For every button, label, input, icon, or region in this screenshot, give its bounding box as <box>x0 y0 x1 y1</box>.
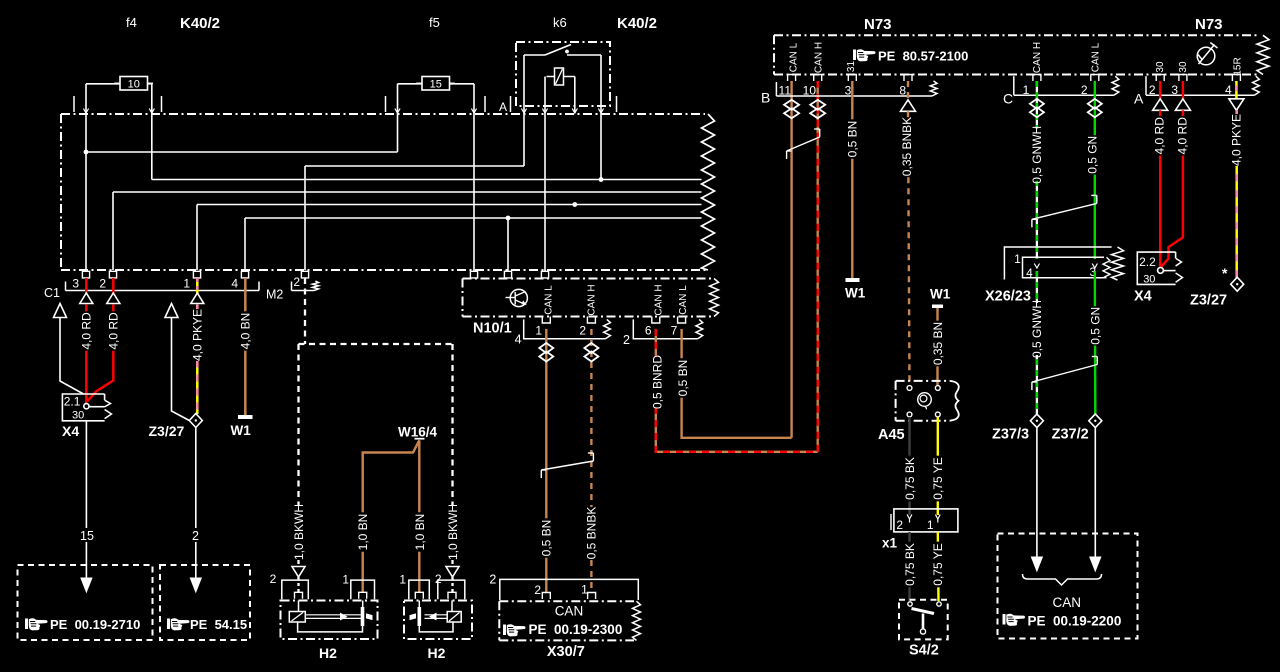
svg-text:S4/2: S4/2 <box>909 643 939 659</box>
svg-text:2: 2 <box>623 333 630 347</box>
svg-text:4,0 PKYE: 4,0 PKYE <box>191 309 205 361</box>
module K40/2 boundary box <box>60 114 62 270</box>
fuse f4 10A <box>120 77 148 91</box>
svg-text:X4: X4 <box>1134 289 1152 305</box>
svg-text:A45: A45 <box>878 427 905 443</box>
svg-text:3: 3 <box>845 84 852 98</box>
horn H2 (left) connector brackets <box>282 580 309 599</box>
svg-text:2: 2 <box>896 518 903 532</box>
svg-text:0,5 GNWH: 0,5 GNWH <box>1030 126 1044 184</box>
wire Z37/2 to CAN reference <box>1094 428 1096 558</box>
svg-text:4: 4 <box>1026 266 1033 280</box>
svg-text:1: 1 <box>399 573 406 587</box>
wire 0,5 GNWH X26/23 to Z37/3 <box>1036 271 1038 414</box>
wire 0,75 YE x1 to S4/2 <box>937 532 940 601</box>
pin C1-3 terminal <box>82 271 89 278</box>
svg-text:2: 2 <box>270 572 277 586</box>
junction at (574.8,204.5) <box>572 202 577 207</box>
svg-text:4,0 RD: 4,0 RD <box>1153 117 1167 155</box>
inline connector (double diamond) N10/1 pin1 <box>539 343 553 353</box>
twisted pair symbol (green pair upper) <box>1032 203 1097 219</box>
svg-text:X30/7: X30/7 <box>547 644 585 660</box>
svg-text:K40/2: K40/2 <box>617 15 657 32</box>
reference box PE 54.15 <box>160 565 250 640</box>
inline connector N73 pin 11 <box>784 100 799 110</box>
wire 0,5 BNRD from N10/1 pin 6 to N73 pin 10 (CAN H) <box>656 329 818 452</box>
svg-text:1,0 BN: 1,0 BN <box>413 514 427 551</box>
svg-text:PE 54.15: PE 54.15 <box>190 617 247 632</box>
horn H2 (right) symbol <box>451 601 453 612</box>
reference box PE 00.19-2200 <box>998 534 1138 639</box>
svg-text:0,5 GNWH: 0,5 GNWH <box>1030 300 1044 358</box>
svg-text:Z3/27: Z3/27 <box>1190 293 1227 309</box>
svg-text:0,5 GN: 0,5 GN <box>1089 307 1103 345</box>
svg-text:N10/1: N10/1 <box>473 321 512 337</box>
svg-text:2: 2 <box>489 573 496 587</box>
svg-text:30: 30 <box>1143 274 1155 286</box>
connector bracket M2 <box>292 290 315 292</box>
svg-text:M2: M2 <box>266 288 283 302</box>
svg-text:X4: X4 <box>62 423 79 439</box>
connector arrow A2 <box>1153 99 1168 111</box>
wire: pin M2-4 to right edge bus <box>244 218 246 270</box>
horn H2 (right) box <box>404 601 472 640</box>
wire f4 right lead <box>148 83 152 85</box>
terminal Z37/2 <box>1089 414 1102 428</box>
svg-text:1,0 BKWH: 1,0 BKWH <box>446 504 460 560</box>
X4 right chevrons <box>1176 258 1182 266</box>
wire 0,5 GN X26/23 to Z37/2 <box>1094 271 1097 414</box>
svg-text:0,75 YE: 0,75 YE <box>931 457 945 499</box>
X4 terminal ring <box>84 404 89 409</box>
svg-text:15R: 15R <box>1233 57 1244 75</box>
svg-text:3: 3 <box>72 277 79 291</box>
arrow into PE 00.19-2200 (left) <box>1031 557 1042 571</box>
horn switch S4/2 box <box>899 600 948 640</box>
wire 4,0 RD from pin C1-3 <box>85 278 88 294</box>
K40/2 torn right edge <box>702 114 715 270</box>
twisted pair symbol (CAN at N73 B) <box>787 137 820 151</box>
svg-text:x1: x1 <box>882 536 898 551</box>
control unit N10/1 box <box>462 279 464 317</box>
label CAN H (N10/1 pin 2) <box>586 284 597 315</box>
wire: pin M2-1 to right edge bus <box>196 205 198 271</box>
svg-text:PE 00.19-2200: PE 00.19-2200 <box>1028 614 1122 629</box>
fuse f5 15A <box>422 77 450 91</box>
connector bracket C1 <box>66 290 260 292</box>
svg-text:1: 1 <box>535 324 542 338</box>
relay k6 contact <box>524 54 545 56</box>
connector bracket X30/7 <box>500 579 639 600</box>
wire 1,0 BN right horn pin 1 <box>418 440 420 592</box>
svg-text:30: 30 <box>72 410 84 422</box>
svg-text:0,5 BNRD: 0,5 BNRD <box>650 355 664 409</box>
connector x1 <box>894 509 958 532</box>
svg-text:30: 30 <box>1178 61 1189 73</box>
svg-text:2: 2 <box>1149 83 1156 97</box>
terminal block X4 (2.2 / 30) <box>1137 252 1175 284</box>
svg-text:2.2: 2.2 <box>1139 255 1156 269</box>
CAN brace <box>1023 574 1102 585</box>
svg-text:0,35 BN: 0,35 BN <box>931 322 945 365</box>
svg-text:N73: N73 <box>864 16 892 33</box>
svg-text:1: 1 <box>342 573 349 587</box>
connector bracket C (N73) <box>1014 94 1114 96</box>
wire 4,0 RD from N73 A2 <box>1159 81 1162 99</box>
svg-text:*: * <box>1222 265 1228 281</box>
svg-text:A: A <box>1134 91 1144 107</box>
svg-text:H2: H2 <box>428 645 446 661</box>
twisted pair symbol (CAN to X30/7) <box>541 461 593 470</box>
svg-text:2: 2 <box>534 583 541 597</box>
connector arrow at left horn pin 2 <box>292 567 305 578</box>
N10/1 top terminals <box>470 271 477 278</box>
svg-text:4: 4 <box>1225 83 1232 97</box>
connector bracket 4 (N10/1) <box>524 319 606 338</box>
svg-text:31: 31 <box>846 61 857 73</box>
terminal block X4 (2.1 / 30) <box>62 394 104 421</box>
svg-text:7: 7 <box>671 324 678 338</box>
inline connector C1 <box>1030 99 1044 109</box>
wire f5 right lead <box>450 83 475 85</box>
svg-text:W1: W1 <box>231 423 252 438</box>
module A45 box <box>895 381 897 421</box>
inline connector C2 <box>1088 99 1102 109</box>
svg-text:PE 80.57-2100: PE 80.57-2100 <box>878 49 968 64</box>
svg-text:4: 4 <box>515 333 522 347</box>
svg-text:CAN H: CAN H <box>814 42 825 73</box>
svg-text:CAN H: CAN H <box>1032 42 1043 73</box>
svg-text:1,0 BKWH: 1,0 BKWH <box>292 504 306 560</box>
wire Z37/3 to CAN reference <box>1036 428 1038 558</box>
connector bracket A (N73) <box>1146 94 1254 96</box>
horn H2 (left) box <box>281 601 378 640</box>
svg-text:10: 10 <box>803 84 817 98</box>
svg-text:CAN L: CAN L <box>543 285 554 315</box>
N73 torn right edge <box>1257 35 1269 74</box>
A45 terminals <box>907 386 912 391</box>
N10/1 torn right edge <box>710 279 719 317</box>
connector arrow at right horn pin 2 <box>446 567 459 578</box>
relay k6 coil <box>555 68 564 85</box>
wire 0,5 BNBK from N10/1 pin 2 <box>590 329 592 592</box>
svg-text:CAN: CAN <box>555 604 584 619</box>
pin M2-1 terminal <box>193 271 200 278</box>
control unit N73 box <box>773 35 775 74</box>
reference PE 80.57-2100 (in N73) <box>853 49 876 61</box>
svg-text:0,5 BN: 0,5 BN <box>846 121 860 158</box>
distribution box X30/7 (CAN) <box>498 601 500 640</box>
connector X26/23 outer bracket <box>1004 247 1111 280</box>
reference box PE 00.19-2710 <box>18 565 153 640</box>
wire: pin C1-2 to right edge bus <box>112 192 114 270</box>
twisted pair symbol (green pair lower) <box>1032 365 1097 383</box>
label CAN L (N73 C pin 2) <box>1090 42 1101 72</box>
wire 1,0 BKWH to right horn <box>451 344 453 505</box>
connector arrow A4 (down) <box>1229 99 1244 111</box>
wire: bus f4 to f5 left lead <box>86 151 398 153</box>
S4/2 switch contacts <box>908 602 912 606</box>
connector arrow A3 <box>1175 99 1190 111</box>
svg-text:K40/2: K40/2 <box>180 15 220 32</box>
svg-text:1: 1 <box>927 518 934 532</box>
connector arrow pin C1-2 <box>107 293 120 304</box>
wire 4,0 BN from pin M2-4 <box>244 278 247 415</box>
wire 0,75 BK x1 to S4/2 <box>908 532 910 601</box>
svg-text:0,75 BK: 0,75 BK <box>903 543 917 586</box>
svg-text:CAN H: CAN H <box>653 284 664 315</box>
wire 1,0 BN left horn pin 1 <box>363 440 420 592</box>
svg-text:PE 00.19-2710: PE 00.19-2710 <box>50 617 140 632</box>
ignition/clamp symbol in N73 <box>1197 47 1215 65</box>
svg-text:B: B <box>761 90 770 106</box>
svg-text:0,5 BNBK: 0,5 BNBK <box>585 507 599 560</box>
label 15R (N73 A pin 4) <box>1233 57 1244 75</box>
wire circuit 15 from X4 to ground plate <box>85 421 87 579</box>
svg-text:CAN H: CAN H <box>586 284 597 315</box>
N10/1 bottom terminals <box>542 317 550 324</box>
wire f5 left lead <box>398 83 423 85</box>
N73 bottom terminals <box>788 75 796 82</box>
svg-text:2.1: 2.1 <box>64 395 81 409</box>
connector arrow N73 pin 8 <box>901 100 916 112</box>
label 31 (N73 pin 3) <box>846 61 857 73</box>
svg-text:4,0 RD: 4,0 RD <box>1176 117 1190 155</box>
wire k6 terminal 4 (contact out) <box>600 55 602 113</box>
wire 0,75 BK A45 to x1 <box>908 417 910 515</box>
wire 4,0 RD from pin C1-2 <box>112 278 115 294</box>
svg-text:3: 3 <box>1171 83 1178 97</box>
svg-text:f4: f4 <box>126 15 137 30</box>
svg-text:C1: C1 <box>44 286 60 300</box>
connector bracket B (N73) <box>776 95 932 97</box>
svg-text:CAN L: CAN L <box>789 42 800 72</box>
label CAN H (N10/1 pin 6) <box>653 284 664 315</box>
svg-text:0,75 BK: 0,75 BK <box>903 457 917 500</box>
relay k6 box <box>516 42 610 106</box>
svg-text:1: 1 <box>1014 252 1021 266</box>
label CAN H (N73 C pin 1) <box>1032 42 1043 73</box>
svg-text:CAN L: CAN L <box>678 285 689 315</box>
wire circuit 2 from Z3/27 to ground plate <box>195 428 197 579</box>
arrow into PE 00.19-2710 <box>81 578 92 592</box>
label 30 (N73 A pin 3) <box>1178 61 1189 73</box>
svg-text:0,35 BNBK: 0,35 BNBK <box>900 117 914 176</box>
svg-text:0,75 YE: 0,75 YE <box>931 543 945 585</box>
svg-text:C: C <box>1003 91 1013 107</box>
label CAN H (N73 pin 10) <box>814 42 825 73</box>
svg-text:0,5 BN: 0,5 BN <box>676 360 690 397</box>
horn H2 (right) connector brackets <box>409 580 430 599</box>
svg-text:11: 11 <box>779 84 792 98</box>
wire: f4 left lead to pin C1-3 vertical <box>85 113 87 270</box>
junction at (601,179.5) <box>599 177 604 182</box>
feed arrow to X4 (continues up) <box>54 304 67 318</box>
wire 0,5 BN from N73 pin 3 to ground W1 <box>851 81 853 278</box>
pin M2-2 terminal <box>301 271 308 278</box>
connector arrow pin M2-1 <box>191 293 204 304</box>
svg-text:CAN L: CAN L <box>1090 42 1101 72</box>
svg-text:CAN: CAN <box>1053 595 1082 610</box>
wire: f5 right lead down to N10/1 <box>473 113 475 271</box>
ground W1 (left) <box>238 415 253 419</box>
svg-text:30: 30 <box>1155 61 1166 73</box>
svg-text:2: 2 <box>579 324 586 338</box>
svg-text:1: 1 <box>1023 83 1030 97</box>
svg-text:0,5 BN: 0,5 BN <box>540 520 554 557</box>
wire 0,75 YE A45 to x1 <box>937 417 939 515</box>
svg-text:k6: k6 <box>553 15 567 30</box>
wire 0,5 GNWH from N73 C1 <box>1036 81 1038 259</box>
terminal Z3/27 (left) <box>189 414 202 428</box>
wire k6 terminal 2 (coil left) <box>544 77 546 114</box>
wire 4,0 PKYE from pin M2-1 <box>196 278 199 294</box>
terminal Z3/27 (right) <box>1231 277 1244 291</box>
wire: f4 right lead to bus <box>151 113 153 180</box>
S4/2 switch blade and plunger <box>912 609 935 614</box>
wire 0,35 BN from W1 to A45 <box>936 308 938 386</box>
svg-text:Z37/3: Z37/3 <box>992 427 1029 443</box>
junction at (86,152) <box>84 150 89 155</box>
arrow into PE 54.15 <box>190 578 201 592</box>
svg-text:W1: W1 <box>845 286 866 301</box>
wire k6 terminal 1 (contact in) <box>523 55 525 113</box>
svg-text:2: 2 <box>1081 83 1088 97</box>
svg-text:2: 2 <box>293 275 300 289</box>
svg-text:15: 15 <box>80 529 94 543</box>
svg-text:X26/23: X26/23 <box>985 289 1031 305</box>
svg-text:W16/4: W16/4 <box>398 425 438 440</box>
svg-text:4,0 BN: 4,0 BN <box>239 313 253 350</box>
wire: bus at y179 to k6 terminal4 and right edge <box>152 179 702 181</box>
feed arrow to Z3/27 (continues up) <box>165 304 178 318</box>
svg-text:W1: W1 <box>930 287 951 302</box>
N10/1 electronics symbol <box>510 289 527 306</box>
svg-text:1: 1 <box>183 277 190 291</box>
wire k6 terminal 3 (coil right) <box>574 77 576 114</box>
connector bracket 2 (N10/1) <box>633 319 697 338</box>
pin C1-2 terminal <box>109 271 116 278</box>
svg-text:10: 10 <box>128 78 140 90</box>
svg-text:15: 15 <box>430 78 442 90</box>
wire 0,5 GN from N73 C2 <box>1094 81 1096 259</box>
K40/2 edge ticks at f4 <box>73 96 75 112</box>
label CAN L (N10/1 pin 7) <box>678 285 689 315</box>
svg-text:PE 00.19-2300: PE 00.19-2300 <box>529 622 623 637</box>
ground W1 (center) <box>846 278 860 282</box>
wire 1,0 BKWH from pin M2-2 <box>304 278 306 344</box>
label CAN L (N73 pin 11) <box>789 42 800 72</box>
svg-text:2: 2 <box>99 277 106 291</box>
K40/2 edge ticks at k6, connector A label <box>510 96 512 112</box>
svg-text:f5: f5 <box>429 15 440 30</box>
wire 4,0 RD from N73 A3 <box>1182 81 1185 99</box>
A45 coil symbol <box>918 393 932 407</box>
pin M2-4 terminal <box>241 271 248 278</box>
wire f4 left lead <box>86 83 120 85</box>
arrow into PE 00.19-2200 (right) <box>1090 557 1101 571</box>
svg-text:2: 2 <box>435 572 442 586</box>
X4 right terminal ring <box>1158 268 1164 274</box>
wire: k6 terminal1 to pin M2-2 <box>523 113 525 166</box>
svg-text:0,5 GN: 0,5 GN <box>1085 136 1099 174</box>
wire: k6 coil left down to N10/1 <box>544 113 546 271</box>
svg-text:1,0 BN: 1,0 BN <box>356 514 370 551</box>
wire 0,5 BN from N10/1 pin 7 to N73 pin 11 (CAN L) <box>682 329 792 438</box>
svg-text:4,0 PKYE: 4,0 PKYE <box>1229 114 1243 166</box>
terminal Z37/3 <box>1030 414 1043 428</box>
svg-text:H2: H2 <box>319 645 337 661</box>
svg-text:8: 8 <box>899 84 906 98</box>
junction at (508,218) <box>506 216 511 221</box>
label 30 (N73 A pin 2) <box>1155 61 1166 73</box>
horn H2 (left) symbol <box>298 601 300 612</box>
X4 row chevrons <box>105 400 111 407</box>
wire 0,5 BN from N10/1 pin 1 <box>545 329 547 592</box>
svg-text:Z37/2: Z37/2 <box>1052 427 1089 443</box>
wire 4,0 PKYE from N73 A4 <box>1235 81 1238 99</box>
inline connector (double diamond) N10/1 pin2 <box>584 343 598 353</box>
inline connector N73 pin 10 <box>810 100 825 110</box>
svg-text:Z3/27: Z3/27 <box>149 423 185 439</box>
svg-text:4: 4 <box>231 277 238 291</box>
wire 0,35 BNBK from N73 pin 8 to A45 <box>907 81 909 100</box>
connector W16/4 <box>415 438 425 440</box>
svg-text:4,0 RD: 4,0 RD <box>107 312 121 350</box>
label CAN L (N10/1 pin 1) <box>543 285 554 315</box>
svg-text:6: 6 <box>645 324 652 338</box>
K40/2 edge ticks at f5 <box>385 96 387 112</box>
svg-text:2: 2 <box>192 529 199 543</box>
svg-text:4,0 RD: 4,0 RD <box>80 312 94 350</box>
svg-text:N73: N73 <box>1195 16 1223 33</box>
connector X26/23 inner box <box>1023 257 1105 278</box>
connector arrow pin C1-3 <box>80 293 93 304</box>
wire: bus junction down to N10/1 <box>507 218 509 271</box>
svg-text:A: A <box>499 100 507 114</box>
